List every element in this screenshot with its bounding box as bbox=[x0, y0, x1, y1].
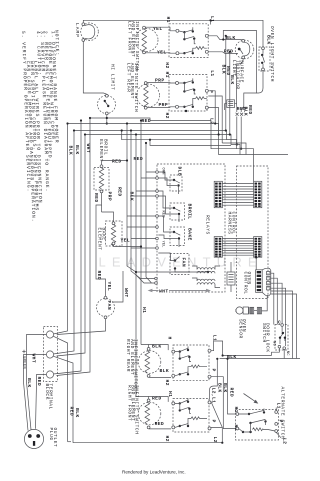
wire fan bottom to terminal bbox=[57, 319, 106, 335]
wire BLK lamp top to oven light switch bbox=[83, 20, 263, 47]
wire BLK switch LF to indicator bbox=[208, 36, 242, 40]
svg-text:RED: RED bbox=[155, 421, 165, 427]
svg-text:H2: H2 bbox=[164, 113, 170, 119]
component fuse top center bbox=[225, 100, 237, 110]
switch LR contacts bbox=[176, 78, 209, 109]
svg-text:BLOCK: BLOCK bbox=[44, 384, 50, 401]
svg-text:LEFT FRONT: LEFT FRONT bbox=[127, 21, 133, 54]
transformer coil primary bbox=[192, 266, 220, 273]
infinite switch left front (dashed box) bbox=[169, 24, 208, 58]
svg-text:ORN: ORN bbox=[160, 168, 164, 175]
text DOOR LOCK SWITCH bbox=[261, 323, 271, 353]
svg-text:NO: NO bbox=[271, 341, 275, 346]
svg-text:WHT: WHT bbox=[30, 354, 36, 364]
wire relay feed v4 down bbox=[140, 121, 142, 345]
svg-text:RELAYS: RELAYS bbox=[205, 215, 211, 235]
transformer coil secondary bbox=[192, 278, 220, 288]
wire diagonal L1 to L2 corner bbox=[211, 401, 223, 428]
connector lower right (pin strip) bbox=[254, 237, 262, 258]
wire L1 rr up to bus bbox=[211, 341, 223, 356]
svg-text:H2: H2 bbox=[164, 62, 170, 68]
text SURFACE INDICATOR LIGHT bbox=[231, 60, 244, 90]
svg-text:SENSOR: SENSOR bbox=[238, 319, 244, 339]
relay BAKE bbox=[158, 216, 192, 247]
wire down to right front element bbox=[136, 272, 149, 399]
infinite switch right rear (dashed box) bbox=[173, 345, 209, 380]
wire oven control to sensor bbox=[262, 295, 268, 311]
connector lower left (pin strip) bbox=[214, 237, 222, 258]
svg-text:RED: RED bbox=[93, 193, 99, 203]
svg-text:P: P bbox=[277, 420, 283, 423]
svg-text:SWITCH: SWITCH bbox=[261, 323, 267, 343]
wire oven control to door lock 2 bbox=[271, 278, 278, 324]
wire element LR bottom to switch bbox=[147, 106, 175, 109]
text INFINITE SWITCH AND ELEMENT LEFT FRONT bbox=[127, 21, 140, 71]
svg-text:RED: RED bbox=[96, 271, 102, 281]
svg-text:FAN: FAN bbox=[180, 258, 186, 268]
svg-text:YEL: YEL bbox=[106, 282, 112, 292]
switch RF contacts bbox=[172, 398, 211, 430]
element right rear bbox=[138, 348, 161, 378]
oven light switch contacts bbox=[261, 47, 265, 71]
alternate switch contacts bbox=[236, 408, 281, 438]
relay box left pins bbox=[156, 171, 159, 250]
wire broil top bbox=[102, 161, 128, 165]
X terminal marks bbox=[236, 113, 244, 116]
svg-text:BLK: BLK bbox=[74, 408, 80, 418]
svg-text:H1: H1 bbox=[141, 307, 147, 313]
fan motor (dashed circle) bbox=[97, 296, 115, 318]
wire indicator bottom down jog bbox=[237, 59, 244, 145]
wire element LR top to switch bbox=[147, 82, 175, 84]
wire element LF bottom to switch bbox=[145, 52, 176, 54]
svg-text:L1: L1 bbox=[209, 70, 215, 76]
svg-text:RED: RED bbox=[36, 377, 42, 387]
wire bus step F bbox=[150, 140, 231, 146]
svg-text:PRP: PRP bbox=[159, 102, 169, 108]
wire terminal to plug 2 bbox=[24, 355, 47, 431]
outlet plug bbox=[24, 429, 43, 448]
wire oven control to lower bus 2 bbox=[271, 294, 297, 359]
svg-text:LEFT REAR: LEFT REAR bbox=[125, 63, 131, 93]
text INFINITE SWITCH AND ELEMENT RIGHT REAR bbox=[125, 339, 138, 389]
door lock contacts bbox=[271, 319, 289, 356]
svg-text:P: P bbox=[211, 369, 217, 372]
wire left bundle 4 bbox=[57, 135, 86, 357]
wire bus D y143 bbox=[222, 143, 246, 155]
text BAKE ELEMENT bbox=[96, 228, 106, 251]
wire BLK bus lower 2 bbox=[220, 358, 300, 360]
svg-text:RED: RED bbox=[224, 49, 234, 55]
relay FAN (dashed box) bbox=[158, 253, 190, 275]
svg-text:NC: NC bbox=[285, 351, 289, 356]
junction dot below left-rear switch bbox=[185, 110, 187, 112]
text TERMINAL BLOCK bbox=[44, 384, 54, 410]
wire door lock down bbox=[272, 348, 285, 359]
relay BROIL bbox=[158, 191, 192, 222]
svg-text:Rendered by LeadVenture, Inc.: Rendered by LeadVenture, Inc. bbox=[122, 470, 186, 475]
wire element RF top to switch bbox=[149, 397, 169, 402]
svg-text:ALTERNATE SWITCH: ALTERNATE SWITCH bbox=[280, 387, 286, 440]
wire lamp bottom down left side bbox=[83, 41, 107, 94]
wire bus RED y118 bbox=[90, 118, 254, 181]
infinite switch left rear (dashed box) bbox=[169, 75, 207, 111]
element left rear bbox=[137, 82, 160, 110]
svg-text:BROIL: BROIL bbox=[187, 204, 193, 220]
hi-limit thermostat bbox=[98, 94, 116, 114]
text OVEN SENSOR bbox=[238, 319, 248, 339]
svg-text:RED: RED bbox=[134, 156, 144, 162]
infinite switch right front (dashed box) bbox=[173, 399, 209, 433]
wire terminal RED to bottom bus bbox=[53, 336, 67, 442]
wire switch LR L1 vertical bbox=[208, 91, 215, 124]
wire L2 rf down to bus bbox=[211, 427, 222, 442]
text OUTLET PLUG bbox=[48, 428, 58, 448]
wire oven control to door lock 4 bbox=[271, 288, 286, 346]
svg-text:H1: H1 bbox=[165, 17, 171, 23]
dashed divider x225 handled by box, extra dashed lines bbox=[237, 166, 269, 299]
element left front (dashed circle + zigzag) bbox=[135, 26, 158, 54]
wire L1 pin up to line bbox=[210, 20, 212, 24]
component small box L3 bbox=[227, 262, 235, 292]
wire WHT right of fan bbox=[112, 271, 123, 302]
svg-text:RED: RED bbox=[112, 159, 122, 165]
svg-text:YEL: YEL bbox=[160, 241, 164, 248]
element right front bbox=[138, 399, 161, 429]
connector upper right (pin strip) bbox=[254, 181, 262, 207]
svg-text:GREEN: GREEN bbox=[21, 356, 25, 370]
svg-text:RIGHT FRONT: RIGHT FRONT bbox=[126, 385, 132, 421]
svg-text:L1: L1 bbox=[212, 335, 218, 341]
door lock switch (dashed box) bbox=[275, 325, 288, 351]
wire bus step E bbox=[122, 131, 227, 140]
wire terminal BLK to bottom bus bbox=[53, 356, 73, 443]
wire switch LF RED vertical bbox=[229, 52, 231, 135]
wire RED switch LF to indicator bbox=[208, 52, 238, 54]
wire bake bottom bbox=[114, 245, 142, 247]
alternate switch (dashed box) bbox=[236, 410, 279, 441]
wire relay feed v5 bbox=[146, 143, 152, 283]
wire hi-limit bottom to bus bbox=[106, 115, 108, 124]
wire switch LR P vertical bbox=[208, 96, 222, 143]
wire bake top bbox=[102, 205, 114, 222]
svg-text:BLK: BLK bbox=[26, 378, 32, 388]
svg-text:BLK: BLK bbox=[74, 145, 80, 155]
svg-text:ELEMENT: ELEMENT bbox=[98, 139, 104, 162]
wire harness to oven control bbox=[255, 257, 257, 269]
switch RR contacts bbox=[172, 346, 211, 378]
svg-text:FAN: FAN bbox=[106, 301, 112, 311]
svg-text:P: P bbox=[210, 420, 216, 423]
svg-text:RED: RED bbox=[116, 187, 122, 197]
lamp LAMP (oven lamp, top left) bbox=[81, 23, 99, 42]
svg-text:H2: H2 bbox=[164, 436, 170, 442]
wire relay feed v3 to relay pin bbox=[136, 135, 155, 284]
wire indicator bypass loop bbox=[223, 31, 256, 149]
svg-text:PRP: PRP bbox=[106, 192, 112, 202]
svg-text:BLK: BLK bbox=[266, 35, 272, 45]
svg-text:RED: RED bbox=[160, 211, 164, 218]
arrow WHT harness indicator (double headed) bbox=[148, 288, 211, 295]
wire ribbon upper bbox=[222, 184, 253, 206]
text OVEN CONTROL bbox=[242, 272, 252, 295]
svg-text:L2: L2 bbox=[212, 437, 218, 443]
wire element RR bottom to switch bbox=[149, 376, 171, 378]
wire switch LR L2 vertical bbox=[208, 108, 218, 135]
wire stubs into relay box bbox=[127, 172, 156, 248]
svg-text:L2,L1: L2,L1 bbox=[211, 388, 217, 404]
svg-text:BLK: BLK bbox=[68, 146, 74, 156]
wire bus C y134.5 bbox=[85, 135, 240, 155]
svg-text:RED: RED bbox=[229, 388, 235, 398]
wire element RF bottom to switch bbox=[149, 428, 171, 430]
wire bus A y123.5 to door lock bbox=[68, 124, 289, 155]
wire element LF top to switch bbox=[145, 27, 176, 31]
text INFINITE SWITCH AND ELEMENT RIGHT FRONT bbox=[126, 385, 139, 435]
wire left bundle 2 bbox=[53, 131, 74, 355]
wire element RR top to switch bbox=[149, 345, 169, 351]
wire left bundle 1 bbox=[53, 124, 67, 335]
text CONTROL HARNESS bbox=[227, 212, 237, 235]
svg-text:L1: L1 bbox=[209, 16, 215, 22]
wire relay feed v1 to transformer bbox=[127, 124, 208, 273]
svg-text:H: H bbox=[167, 337, 173, 340]
svg-text:WHT: WHT bbox=[85, 144, 91, 154]
wire L2 rr down to alt switch bbox=[228, 359, 236, 414]
svg-text:RED: RED bbox=[237, 106, 247, 112]
svg-text:BLK: BLK bbox=[160, 368, 170, 374]
oven sensor (bulb + connector) bbox=[236, 307, 262, 314]
wire oven light switch bottom joins bypass bbox=[257, 71, 264, 93]
text BROIL ELEMENT bbox=[98, 139, 109, 162]
switch LF contacts bbox=[176, 27, 208, 55]
oven light switch (dashed box) bbox=[259, 47, 270, 71]
svg-text:DLB: DLB bbox=[177, 167, 183, 177]
wire ribbon lower bbox=[222, 239, 253, 256]
wire terminal to plug 1 bbox=[27, 335, 47, 430]
wire BLK bus lower 1 bbox=[223, 355, 272, 357]
svg-text:BLK: BLK bbox=[226, 35, 236, 41]
svg-text:YEL: YEL bbox=[121, 238, 131, 244]
svg-text:H2: H2 bbox=[164, 380, 170, 386]
wire bus B y130.5 bbox=[74, 131, 237, 149]
svg-text:BLK: BLK bbox=[222, 383, 228, 393]
wire H1 down to right rear element bbox=[141, 345, 149, 348]
surface indicator light (dashed circle) bbox=[235, 39, 254, 58]
svg-text:HI LIMIT: HI LIMIT bbox=[110, 64, 116, 90]
broil element (dashed box + zigzag) bbox=[94, 165, 109, 193]
wire broil bottom to fan feed bbox=[96, 193, 106, 296]
text INFINITE SWITCH AND ELEMENT LEFT REAR bbox=[125, 63, 138, 113]
wire oven control to door lock 1 bbox=[271, 273, 274, 324]
svg-text:WHT: WHT bbox=[123, 288, 129, 298]
wire bottom bus bbox=[73, 442, 222, 444]
svg-text:ELEMENT: ELEMENT bbox=[96, 228, 102, 251]
wire oven control to lower bus 1 bbox=[271, 291, 293, 359]
wire switch LF BLK vertical bbox=[225, 36, 227, 131]
connector upper left (pin strip) bbox=[214, 181, 222, 207]
svg-text:YEL: YEL bbox=[157, 49, 167, 55]
wire left bundle 3 bbox=[53, 121, 81, 375]
relay box (dashed outline) bbox=[157, 164, 225, 292]
svg-text:LAMP: LAMP bbox=[74, 23, 80, 38]
wire terminal to plug 3 bbox=[36, 375, 47, 429]
terminal block (dashed outline + 3 terminals) bbox=[44, 327, 58, 382]
svg-text:RIGHT REAR: RIGHT REAR bbox=[125, 339, 131, 372]
arrow to alternate switch bbox=[244, 394, 259, 404]
svg-text:BLK: BLK bbox=[229, 75, 235, 85]
svg-text:WHT: WHT bbox=[159, 288, 169, 294]
wire L1 rf up to bus bbox=[210, 359, 218, 400]
bake element (dashed box + zigzag) bbox=[106, 221, 123, 246]
svg-text:HARNESS: HARNESS bbox=[227, 212, 233, 235]
svg-text:H1: H1 bbox=[233, 407, 239, 413]
svg-text:RED: RED bbox=[69, 407, 75, 417]
wire P rr down bbox=[211, 377, 236, 429]
wire oven control to door lock 3 bbox=[271, 283, 282, 324]
svg-text:PLUG: PLUG bbox=[48, 428, 54, 441]
relay DLB bbox=[158, 167, 182, 195]
wire left bundle 5 bbox=[57, 118, 91, 376]
svg-text:BAKE: BAKE bbox=[187, 228, 193, 241]
connector oven control (vertical pin strip) bbox=[256, 268, 271, 295]
wire bottom bus 2 bbox=[68, 441, 71, 443]
wire relay feed v2 to relay pin bbox=[131, 131, 155, 279]
svg-text:L2: L2 bbox=[282, 438, 288, 444]
note NOTICE text block bbox=[20, 30, 60, 223]
